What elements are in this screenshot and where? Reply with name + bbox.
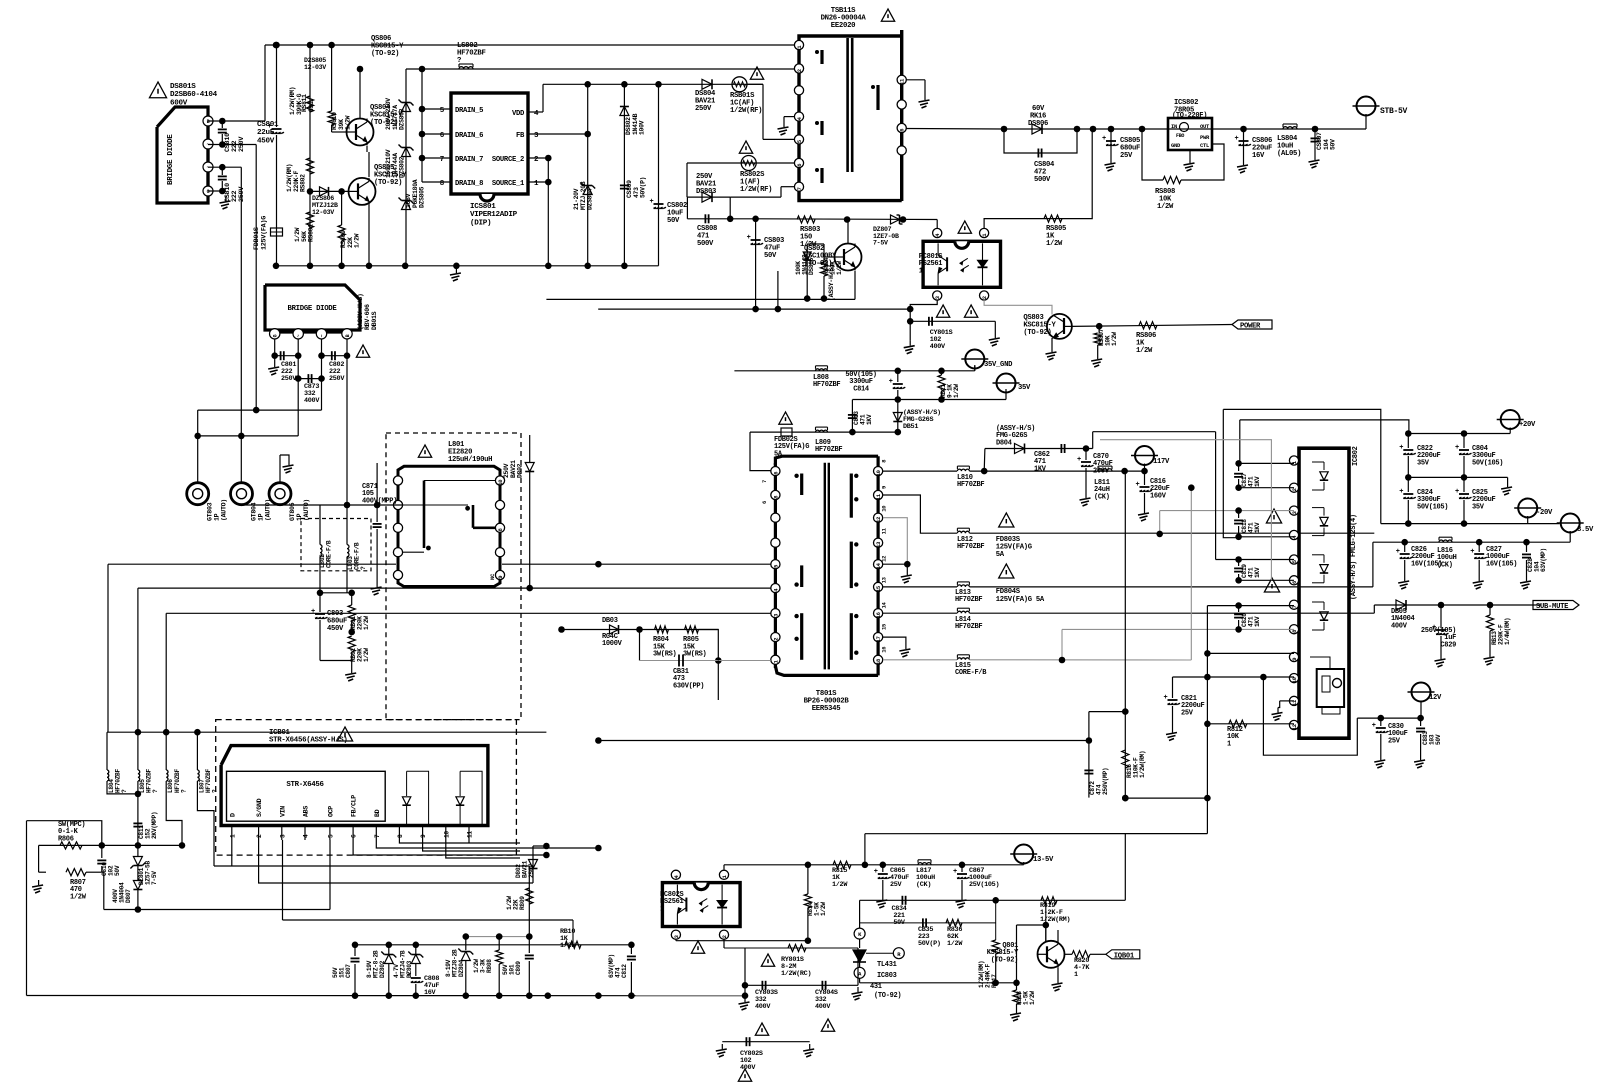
svg-text:50V(P): 50V(P) bbox=[640, 177, 647, 198]
svg-text:(DIP): (DIP) bbox=[470, 219, 491, 227]
svg-text:C809: C809 bbox=[515, 961, 522, 975]
svg-text:C829: C829 bbox=[1440, 641, 1456, 649]
svg-text:16V: 16V bbox=[1252, 152, 1265, 160]
svg-text:7: 7 bbox=[374, 834, 381, 838]
svg-text:1KV: 1KV bbox=[1254, 476, 1261, 487]
svg-text:1: 1 bbox=[1227, 740, 1231, 748]
svg-text:8: 8 bbox=[397, 834, 404, 838]
svg-text:HF70ZBF: HF70ZBF bbox=[205, 769, 212, 793]
svg-text:DZ802: DZ802 bbox=[379, 960, 386, 978]
svg-text:1/2W: 1/2W bbox=[70, 893, 87, 901]
svg-text:R808: R808 bbox=[486, 959, 493, 973]
svg-text:10: 10 bbox=[875, 470, 882, 476]
svg-text:BD: BD bbox=[374, 809, 381, 817]
svg-text:(ASSY-H/S): (ASSY-H/S) bbox=[828, 264, 835, 301]
svg-text:DRAIN_7: DRAIN_7 bbox=[455, 156, 483, 164]
svg-text:EE2020: EE2020 bbox=[831, 22, 855, 30]
svg-text:+: + bbox=[1455, 444, 1459, 452]
svg-text:RS802: RS802 bbox=[300, 174, 307, 192]
svg-text:11: 11 bbox=[1291, 699, 1298, 706]
svg-text:7: 7 bbox=[761, 480, 768, 483]
svg-text:(TO-92): (TO-92) bbox=[874, 992, 901, 1000]
svg-text:POWER: POWER bbox=[1240, 323, 1261, 331]
svg-text:1/2W: 1/2W bbox=[1029, 991, 1036, 1005]
svg-text:15: 15 bbox=[880, 623, 887, 630]
svg-text:VDD: VDD bbox=[512, 110, 525, 118]
svg-text:7: 7 bbox=[796, 187, 803, 190]
svg-text:D807: D807 bbox=[125, 889, 132, 903]
svg-text:CORE-F/B: CORE-F/B bbox=[955, 669, 987, 677]
svg-text:FD804S: FD804S bbox=[996, 588, 1021, 596]
svg-text:D2S805: D2S805 bbox=[304, 57, 326, 64]
svg-text:100V: 100V bbox=[639, 120, 646, 135]
svg-text:3W(RS): 3W(RS) bbox=[683, 651, 707, 659]
svg-text:13: 13 bbox=[875, 541, 882, 548]
svg-text:1/2W(RM): 1/2W(RM) bbox=[1139, 751, 1146, 778]
svg-text:DS806: DS806 bbox=[1028, 120, 1048, 128]
svg-text:HF70ZBF: HF70ZBF bbox=[115, 769, 122, 793]
svg-text:FB/CLP: FB/CLP bbox=[351, 795, 358, 817]
svg-text:~: ~ bbox=[207, 165, 210, 171]
svg-text:15: 15 bbox=[875, 585, 882, 592]
svg-text:+: + bbox=[1399, 488, 1403, 496]
svg-text:+: + bbox=[874, 868, 878, 876]
svg-text:125V(FA)G: 125V(FA)G bbox=[261, 216, 269, 250]
svg-text:DRAIN_8: DRAIN_8 bbox=[455, 180, 483, 188]
svg-text:7-5V: 7-5V bbox=[873, 240, 888, 247]
svg-text:DS801S: DS801S bbox=[170, 83, 196, 91]
svg-text:R809: R809 bbox=[519, 896, 526, 910]
svg-text:16V(105): 16V(105) bbox=[1486, 560, 1517, 568]
svg-text:DB03: DB03 bbox=[602, 617, 618, 625]
svg-text:13: 13 bbox=[880, 576, 887, 583]
svg-text:VIPER12ADIP: VIPER12ADIP bbox=[470, 211, 518, 219]
svg-text:16V(105): 16V(105) bbox=[1411, 560, 1442, 568]
svg-text:~: ~ bbox=[320, 334, 326, 337]
svg-text:400V: 400V bbox=[930, 343, 946, 351]
svg-text:1KV: 1KV bbox=[1254, 616, 1261, 627]
svg-text:?: ? bbox=[457, 57, 461, 65]
svg-text:(TO-92): (TO-92) bbox=[371, 50, 399, 58]
svg-text:OUT: OUT bbox=[1200, 123, 1210, 130]
svg-text:+: + bbox=[747, 234, 751, 242]
svg-text:3W(RS): 3W(RS) bbox=[653, 651, 677, 659]
svg-text:400V: 400V bbox=[1391, 622, 1408, 630]
svg-text:12-03V: 12-03V bbox=[304, 64, 326, 71]
svg-text:1/2W: 1/2W bbox=[1111, 332, 1118, 346]
svg-text:6: 6 bbox=[899, 129, 906, 132]
svg-text:35V_GND: 35V_GND bbox=[984, 361, 1013, 369]
svg-text:50V: 50V bbox=[1435, 734, 1442, 745]
svg-text:DRAIN_5: DRAIN_5 bbox=[455, 107, 483, 115]
svg-text:630V(PP): 630V(PP) bbox=[673, 682, 704, 690]
svg-text:SUB-MUTE: SUB-MUTE bbox=[1536, 603, 1569, 611]
svg-text:450V: 450V bbox=[257, 137, 275, 145]
svg-text:(CK): (CK) bbox=[1094, 493, 1110, 501]
svg-text:1/2W: 1/2W bbox=[560, 942, 576, 950]
svg-text:12: 12 bbox=[875, 517, 882, 523]
svg-text:2: 2 bbox=[796, 69, 803, 72]
svg-text:1/2W: 1/2W bbox=[345, 115, 352, 130]
svg-text:1/2W(RC): 1/2W(RC) bbox=[781, 970, 811, 978]
svg-text:G: G bbox=[207, 189, 210, 195]
svg-text:R806: R806 bbox=[58, 835, 74, 843]
svg-text:1/2W: 1/2W bbox=[1136, 347, 1153, 355]
svg-text:1/2W: 1/2W bbox=[354, 233, 361, 248]
svg-text:250V: 250V bbox=[238, 136, 246, 152]
svg-text:+: + bbox=[953, 868, 957, 876]
svg-text:4: 4 bbox=[303, 834, 310, 838]
svg-text:(TO-92): (TO-92) bbox=[370, 119, 398, 127]
svg-text:+: + bbox=[1136, 481, 1140, 489]
svg-text:500V: 500V bbox=[697, 240, 714, 248]
svg-text:2KV(MPP): 2KV(MPP) bbox=[151, 812, 158, 839]
svg-text:1/2W: 1/2W bbox=[953, 384, 960, 398]
svg-text:17: 17 bbox=[875, 636, 882, 642]
svg-text:400V(MPP): 400V(MPP) bbox=[362, 497, 397, 505]
svg-text:S/GND: S/GND bbox=[256, 798, 263, 817]
svg-text:?: ? bbox=[212, 789, 219, 793]
svg-text:(AUTO): (AUTO) bbox=[265, 499, 272, 521]
svg-text:HF70ZBF: HF70ZBF bbox=[146, 769, 153, 793]
svg-text:1: 1 bbox=[660, 905, 664, 913]
svg-text:IC803: IC803 bbox=[877, 972, 897, 980]
svg-text:400V: 400V bbox=[755, 1003, 771, 1011]
svg-text:125V(FA)G 5A: 125V(FA)G 5A bbox=[996, 596, 1045, 604]
svg-text:1/2W: 1/2W bbox=[1046, 240, 1063, 248]
svg-text:STB-5V: STB-5V bbox=[1380, 107, 1408, 116]
svg-text:1/2W: 1/2W bbox=[836, 261, 843, 275]
svg-text:250V: 250V bbox=[695, 105, 712, 113]
svg-text:NC: NC bbox=[489, 573, 496, 580]
svg-text:CORE-F/B: CORE-F/B bbox=[354, 542, 361, 570]
svg-text:6: 6 bbox=[351, 834, 358, 838]
svg-text:EER5345: EER5345 bbox=[812, 705, 841, 713]
svg-text:250V: 250V bbox=[329, 375, 345, 383]
svg-text:1P: 1P bbox=[296, 513, 303, 521]
svg-text:25V(105): 25V(105) bbox=[969, 881, 999, 889]
svg-text:6: 6 bbox=[761, 501, 768, 504]
svg-text:BRIDGE DIODE: BRIDGE DIODE bbox=[167, 134, 175, 185]
svg-text:CORE-F/B: CORE-F/B bbox=[326, 540, 333, 568]
svg-text:10: 10 bbox=[443, 831, 450, 838]
svg-text:(CK): (CK) bbox=[916, 881, 931, 889]
svg-text:16: 16 bbox=[880, 647, 887, 653]
svg-text:DZ803: DZ803 bbox=[406, 960, 413, 978]
svg-text:400V: 400V bbox=[740, 1064, 756, 1072]
svg-text:+: + bbox=[1235, 135, 1239, 143]
svg-text:?: ? bbox=[121, 789, 128, 793]
svg-text:CTL: CTL bbox=[1200, 142, 1210, 149]
svg-text:35V: 35V bbox=[1472, 503, 1485, 511]
svg-text:D: D bbox=[229, 813, 236, 817]
svg-text:HF70ZBF: HF70ZBF bbox=[957, 543, 984, 551]
svg-text:ABS: ABS bbox=[303, 806, 310, 817]
svg-text:6: 6 bbox=[796, 164, 803, 167]
svg-text:125uH/190uH: 125uH/190uH bbox=[448, 456, 492, 464]
svg-text:25V: 25V bbox=[890, 881, 903, 889]
svg-text:OCP: OCP bbox=[327, 806, 334, 817]
svg-text:SOURCE_2: SOURCE_2 bbox=[492, 156, 524, 164]
svg-text:50V: 50V bbox=[114, 865, 121, 876]
svg-text:RBV-606: RBV-606 bbox=[364, 304, 371, 330]
svg-text:+: + bbox=[1102, 135, 1106, 143]
svg-text:2: 2 bbox=[1291, 488, 1298, 491]
svg-text:DS803: DS803 bbox=[696, 188, 716, 196]
svg-text:35V: 35V bbox=[1417, 459, 1430, 467]
svg-text:RS801: RS801 bbox=[308, 224, 315, 242]
svg-text:HF70ZBF: HF70ZBF bbox=[457, 49, 486, 57]
svg-text:D802: D802 bbox=[517, 463, 524, 478]
svg-text:400V: 400V bbox=[815, 1003, 831, 1011]
svg-text:(TO-92): (TO-92) bbox=[1023, 329, 1051, 337]
svg-text:25V: 25V bbox=[1181, 709, 1194, 717]
svg-text:+: + bbox=[311, 608, 315, 616]
svg-text:?: ? bbox=[180, 789, 187, 793]
svg-text:1KV: 1KV bbox=[1034, 465, 1047, 473]
svg-text:GT803: GT803 bbox=[207, 502, 214, 521]
svg-text:SOURCE_1: SOURCE_1 bbox=[492, 180, 525, 188]
svg-text:-20V: -20V bbox=[1536, 509, 1553, 517]
svg-text:117V: 117V bbox=[1153, 458, 1170, 466]
svg-text:D2SB60-4104: D2SB60-4104 bbox=[170, 91, 218, 99]
svg-text:11: 11 bbox=[467, 831, 474, 838]
svg-text:HF70ZBF: HF70ZBF bbox=[955, 596, 982, 604]
svg-text:IC802: IC802 bbox=[1352, 446, 1360, 466]
svg-text:+: + bbox=[1077, 456, 1081, 464]
svg-text:1: 1 bbox=[1074, 971, 1078, 979]
svg-text:D804: D804 bbox=[996, 439, 1012, 447]
svg-text:+: + bbox=[1372, 722, 1376, 730]
svg-text:16V: 16V bbox=[424, 989, 437, 997]
svg-text:2: 2 bbox=[256, 834, 263, 838]
svg-text:HF70ZBF: HF70ZBF bbox=[174, 769, 181, 793]
svg-text:9: 9 bbox=[497, 576, 504, 579]
svg-text:+: + bbox=[1470, 548, 1474, 556]
svg-text:C807: C807 bbox=[345, 964, 352, 978]
svg-text:18: 18 bbox=[875, 658, 882, 665]
svg-text:1: 1 bbox=[919, 267, 923, 275]
svg-text:?: ? bbox=[152, 789, 159, 793]
svg-text:(TO-220F): (TO-220F) bbox=[1172, 112, 1207, 120]
svg-text:14: 14 bbox=[875, 562, 882, 569]
svg-text:HF70ZBF: HF70ZBF bbox=[957, 481, 984, 489]
svg-text:(TO-92): (TO-92) bbox=[991, 956, 1018, 964]
svg-text:11: 11 bbox=[875, 493, 882, 500]
svg-text:STR-X6456(ASSY-H/S): STR-X6456(ASSY-H/S) bbox=[269, 737, 348, 745]
svg-text:1: 1 bbox=[229, 834, 236, 838]
svg-text:5A: 5A bbox=[996, 551, 1005, 559]
svg-text:1KV: 1KV bbox=[866, 414, 873, 425]
svg-text:2: 2 bbox=[981, 296, 988, 299]
svg-text:DB51: DB51 bbox=[903, 423, 918, 431]
svg-text:250V: 250V bbox=[238, 186, 246, 202]
svg-text:+: + bbox=[1396, 548, 1400, 556]
svg-text:(AUTO): (AUTO) bbox=[303, 499, 310, 521]
svg-text:11: 11 bbox=[899, 78, 906, 85]
svg-text:14: 14 bbox=[880, 601, 887, 608]
svg-text:CS801: CS801 bbox=[257, 121, 279, 129]
svg-text:1/2W: 1/2W bbox=[363, 616, 370, 630]
svg-text:1/2W(RF): 1/2W(RF) bbox=[730, 107, 762, 115]
svg-text:2: 2 bbox=[721, 935, 728, 938]
svg-text:HF70ZBF: HF70ZBF bbox=[955, 623, 982, 631]
svg-text:5A: 5A bbox=[774, 450, 783, 458]
svg-text:1KV: 1KV bbox=[1254, 522, 1261, 533]
svg-text:B: B bbox=[345, 334, 351, 337]
svg-text:DZS805: DZS805 bbox=[419, 186, 426, 208]
svg-text:1P: 1P bbox=[258, 513, 265, 521]
svg-text:IN: IN bbox=[1171, 123, 1177, 130]
svg-text:35V: 35V bbox=[1018, 384, 1031, 392]
svg-text:FB: FB bbox=[516, 132, 525, 140]
svg-text:10: 10 bbox=[1291, 677, 1298, 683]
svg-text:12-03V: 12-03V bbox=[312, 209, 334, 216]
svg-text:12: 12 bbox=[1291, 724, 1298, 730]
svg-text:DB01S: DB01S bbox=[371, 311, 378, 330]
svg-text:MTZJ12B: MTZJ12B bbox=[312, 202, 338, 209]
svg-text:STR-X6456: STR-X6456 bbox=[286, 781, 324, 789]
svg-text:+: + bbox=[1455, 488, 1459, 496]
svg-text:~: ~ bbox=[296, 334, 302, 337]
svg-text:9: 9 bbox=[1291, 658, 1298, 661]
svg-text:12V: 12V bbox=[1429, 694, 1442, 702]
svg-text:+: + bbox=[1164, 694, 1168, 702]
svg-text:DZ804: DZ804 bbox=[458, 959, 465, 977]
svg-text:63V(MP): 63V(MP) bbox=[1540, 548, 1547, 572]
svg-text:ICS801: ICS801 bbox=[470, 203, 496, 211]
svg-text:500V: 500V bbox=[1034, 176, 1051, 184]
svg-text:2: 2 bbox=[772, 638, 779, 641]
svg-text:7-5V: 7-5V bbox=[151, 871, 158, 885]
svg-text:+: + bbox=[650, 198, 654, 206]
svg-text:22uF: 22uF bbox=[257, 129, 275, 137]
svg-text:6: 6 bbox=[772, 472, 779, 475]
svg-text:7: 7 bbox=[440, 156, 444, 164]
svg-text:1/2W: 1/2W bbox=[363, 648, 370, 662]
svg-text:1/4W(RM): 1/4W(RM) bbox=[1504, 618, 1511, 645]
svg-text:11: 11 bbox=[880, 527, 887, 534]
svg-text:1/2W: 1/2W bbox=[820, 902, 827, 916]
svg-text:25V: 25V bbox=[1388, 737, 1401, 745]
svg-text:DRAIN_6: DRAIN_6 bbox=[455, 132, 483, 140]
svg-text:9: 9 bbox=[880, 486, 887, 489]
svg-text:12: 12 bbox=[880, 556, 887, 562]
svg-text:HF70ZBF: HF70ZBF bbox=[815, 446, 842, 454]
svg-text:50V(105): 50V(105) bbox=[1417, 503, 1448, 511]
svg-text:1/2W(RF): 1/2W(RF) bbox=[740, 186, 772, 194]
svg-text:1/2W: 1/2W bbox=[832, 881, 848, 889]
svg-text:GND: GND bbox=[1171, 142, 1181, 149]
svg-text:PWR: PWR bbox=[1200, 134, 1210, 141]
svg-text:25V: 25V bbox=[1120, 152, 1133, 160]
svg-text:10: 10 bbox=[497, 480, 504, 486]
svg-text:160V: 160V bbox=[1150, 492, 1167, 500]
svg-text:250V(MP): 250V(MP) bbox=[1102, 768, 1109, 795]
svg-text:431: 431 bbox=[870, 983, 882, 991]
svg-text:+: + bbox=[1399, 444, 1403, 452]
svg-text:?: ? bbox=[360, 566, 367, 570]
svg-text:C812: C812 bbox=[621, 964, 628, 978]
svg-text:B: B bbox=[207, 119, 210, 125]
svg-text:C814: C814 bbox=[853, 385, 869, 393]
svg-text:5: 5 bbox=[327, 834, 334, 838]
svg-text:391: 391 bbox=[308, 101, 315, 112]
svg-text:1P: 1P bbox=[214, 513, 221, 521]
svg-text:50V: 50V bbox=[1330, 139, 1337, 150]
svg-text:(ASSY-H/S) FMLG-12S(4): (ASSY-H/S) FMLG-12S(4) bbox=[1350, 514, 1358, 600]
svg-text:1000V: 1000V bbox=[602, 640, 623, 648]
svg-text:50V: 50V bbox=[667, 217, 680, 225]
svg-text:FBO: FBO bbox=[1176, 133, 1184, 139]
svg-text:TL431: TL431 bbox=[877, 961, 897, 969]
svg-text:DZS806: DZS806 bbox=[312, 195, 334, 202]
svg-text:+: + bbox=[889, 378, 893, 386]
svg-text:(AUTO): (AUTO) bbox=[221, 499, 228, 521]
svg-text:VIN: VIN bbox=[279, 806, 286, 817]
svg-text:(TO-92): (TO-92) bbox=[374, 179, 402, 187]
svg-text:50V(105): 50V(105) bbox=[1472, 459, 1503, 467]
svg-text:10: 10 bbox=[880, 506, 887, 512]
svg-text:16: 16 bbox=[875, 612, 882, 618]
svg-text:50V: 50V bbox=[764, 252, 777, 260]
svg-text:BRIDGE DIODE: BRIDGE DIODE bbox=[288, 305, 338, 313]
svg-text:6: 6 bbox=[1291, 581, 1298, 584]
svg-text:400V: 400V bbox=[304, 397, 320, 405]
svg-text:(ASSY-H/S): (ASSY-H/S) bbox=[357, 293, 364, 330]
svg-text:600V: 600V bbox=[170, 99, 188, 107]
svg-text:HF70ZBF: HF70ZBF bbox=[813, 381, 840, 389]
svg-text:3: 3 bbox=[279, 834, 286, 838]
svg-text:9: 9 bbox=[420, 834, 427, 838]
svg-text:IQB01: IQB01 bbox=[1114, 952, 1135, 960]
svg-text:G: G bbox=[273, 334, 279, 337]
svg-text:450V: 450V bbox=[327, 625, 344, 633]
svg-text:8.5V: 8.5V bbox=[1577, 526, 1594, 534]
svg-text:1KV: 1KV bbox=[1254, 567, 1261, 578]
svg-text:250V: 250V bbox=[281, 375, 297, 383]
svg-text:1/2W: 1/2W bbox=[947, 940, 963, 948]
svg-text:13-5V: 13-5V bbox=[1033, 856, 1054, 864]
svg-text:50V(P): 50V(P) bbox=[918, 940, 941, 948]
svg-text:+20V: +20V bbox=[1519, 421, 1536, 429]
svg-text:DZS804: DZS804 bbox=[587, 188, 594, 210]
svg-text:1/2W: 1/2W bbox=[1157, 203, 1174, 211]
svg-text:(AL05): (AL05) bbox=[1277, 150, 1301, 158]
